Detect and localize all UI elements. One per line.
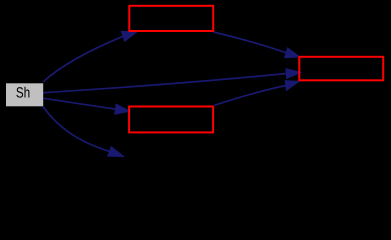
edge Sh->right (long straight) bbox=[44, 74, 287, 93]
arrowhead Sh->bottom hidden node bbox=[108, 147, 124, 157]
arrowhead Sh->right bbox=[286, 69, 301, 79]
edge Sh->middle bbox=[44, 98, 116, 109]
node top (red box, label hidden on black) bbox=[129, 6, 213, 31]
arrowhead Sh->top bbox=[121, 31, 136, 41]
arrowhead Sh->middle bbox=[115, 104, 130, 114]
node Sh (current file, grey fill) bbox=[6, 83, 43, 106]
edge middle->right bbox=[214, 86, 285, 106]
arrowhead top->right bbox=[285, 48, 300, 58]
edge top->right bbox=[214, 32, 287, 53]
node middle (red box, label hidden on black) bbox=[129, 107, 213, 133]
node right (red box, label hidden on black) bbox=[299, 57, 383, 81]
edge Sh->top (curved) bbox=[43, 36, 123, 82]
arrowhead middle->right bbox=[285, 81, 299, 91]
edge Sh->bottom hidden node (curved) bbox=[43, 107, 110, 152]
